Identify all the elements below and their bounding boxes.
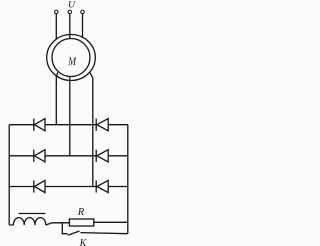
svg-text:K: K [79, 238, 88, 246]
wire phase A (left) to row 1 [56, 72, 58, 124]
wire phase B (middle) to row 2 [69, 77, 71, 156]
switch K [68, 231, 88, 246]
diode D4 (row 2 right) [96, 150, 108, 162]
wire left bus [8, 125, 10, 225]
terminal 1 [55, 10, 59, 14]
svg-text:M: M [67, 56, 77, 68]
wire phase C (right) to row 3 [90, 73, 93, 187]
wire row 3 segments [9, 186, 128, 188]
wire from inductor to resistor [46, 223, 70, 225]
diode D1 (row 1 left) [34, 119, 45, 131]
wire row 2 segments [9, 155, 128, 157]
terminal 3 [81, 10, 85, 14]
wire switch branch drop [62, 223, 67, 234]
wire top lead 3 [82, 14, 84, 38]
diode D3 (row 2 left) [34, 150, 45, 162]
diode D6 (row 3 right) [96, 180, 108, 192]
wire top lead 1 [55, 14, 57, 40]
wire row 1 segments [9, 124, 128, 126]
wire right bus [127, 125, 129, 234]
svg-text:U: U [68, 0, 76, 10]
diode D5 (row 3 left) [34, 180, 45, 192]
inductor L (smoothing reactor with core bar) [9, 214, 46, 226]
svg-text:R: R [77, 207, 85, 218]
terminal 2 [68, 10, 72, 14]
wire switch to right bus [80, 233, 127, 234]
wire top lead 2 [69, 14, 71, 39]
wire resistor to right bus [94, 221, 128, 223]
diode D2 (row 1 right) [96, 119, 108, 131]
motor M [47, 35, 96, 81]
resistor R [69, 207, 93, 226]
